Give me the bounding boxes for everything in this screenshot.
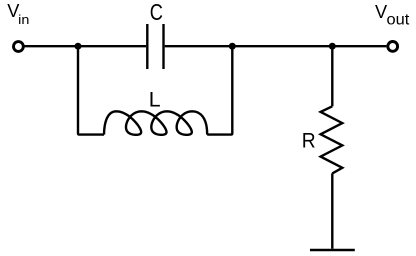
capacitor C left plate: [146, 24, 148, 69]
svg-text:C: C: [150, 0, 163, 25]
input terminal (open circle): [14, 42, 24, 52]
resistor R top lead: [331, 46, 333, 106]
junction dot node B (C/L right): [229, 43, 236, 50]
wire: capacitor right plate to output terminal: [165, 45, 387, 47]
junction dot node C (resistor tap): [329, 43, 336, 50]
svg-text:out: out: [387, 11, 410, 28]
inductor L coil: [104, 111, 207, 135]
wire: input terminal to capacitor left plate: [25, 45, 147, 47]
junction dot node A (input/C/L): [75, 43, 82, 50]
ground bar: [310, 249, 355, 252]
wire: inductor to right branch up to node B: [207, 46, 232, 134]
wire: left branch down from node A to inductor: [78, 46, 104, 134]
resistor R zigzag: [321, 106, 343, 173]
svg-text:R: R: [302, 127, 316, 152]
capacitor C right plate: [162, 24, 164, 69]
output terminal (open circle): [388, 42, 398, 52]
resistor R bottom lead: [331, 173, 333, 248]
svg-text:in: in: [18, 13, 29, 27]
svg-text:L: L: [149, 87, 161, 111]
